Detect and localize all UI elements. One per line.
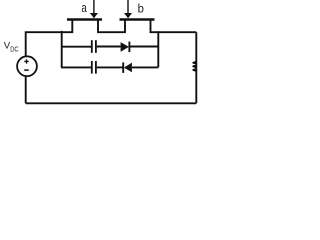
svg-text:DC: DC — [10, 46, 19, 54]
bottom branch wire middle — [97, 66, 123, 68]
arrow b (control) — [124, 0, 132, 18]
voltage source VDC — [17, 56, 37, 76]
top branch wire right — [129, 46, 158, 48]
right rail — [157, 31, 159, 67]
left rail — [61, 31, 63, 67]
switch b — [120, 20, 155, 34]
top branch wire middle — [97, 46, 121, 48]
svg-text:a: a — [81, 2, 87, 16]
diode D2 (bottom, pointing left) — [123, 62, 132, 73]
arrow a (control) — [90, 0, 98, 18]
top branch wire left — [61, 46, 91, 48]
label V_DC — [4, 41, 19, 54]
bottom branch wire right — [132, 66, 158, 68]
wire bottom-left from source to bottom — [25, 77, 27, 104]
bottom branch wire left — [61, 66, 91, 68]
diode D1 (top, pointing right) — [121, 42, 130, 53]
wire middle between switch a and switch b — [98, 31, 126, 33]
capacitor C1 (top) — [92, 40, 96, 53]
wire bottom — [26, 102, 197, 104]
inductor L1 (right edge coil) — [192, 61, 197, 71]
wire top-left from source to rail — [26, 32, 73, 56]
svg-text:b: b — [138, 2, 144, 15]
wire right vertical — [195, 32, 197, 103]
capacitor C2 (bottom) — [92, 61, 96, 74]
switch a — [67, 20, 102, 34]
wire top-right from switch b to right edge — [150, 31, 196, 33]
